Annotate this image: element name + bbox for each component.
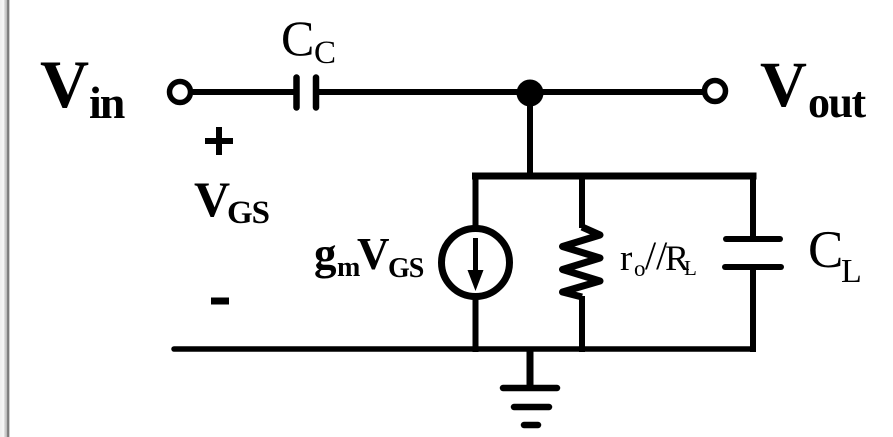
svg-text:C: C (314, 35, 336, 71)
label CL (808, 221, 862, 290)
svg-text:V: V (40, 46, 89, 122)
node Vout label (760, 49, 866, 127)
node junction dot (517, 80, 544, 107)
svg-text:in: in (89, 77, 125, 128)
svg-text:out: out (808, 78, 866, 127)
svg-text:C: C (808, 221, 843, 279)
input terminal (170, 82, 191, 103)
label CC (281, 10, 336, 71)
svg-text:GS: GS (227, 195, 269, 231)
wire input to Cc (193, 89, 294, 95)
wire top bar (472, 173, 757, 180)
capacitor CL (725, 239, 781, 267)
wire bottom rail (174, 346, 753, 352)
wire resistor top lead (579, 173, 585, 228)
node VGS label (194, 171, 269, 231)
svg-text:V: V (760, 49, 807, 121)
svg-text:r: r (620, 238, 632, 279)
svg-text:V: V (194, 171, 230, 227)
capacitor CC (297, 78, 317, 108)
plus sign (205, 127, 233, 155)
wire resistor bottom lead (579, 296, 585, 352)
node Vin label (40, 46, 125, 128)
ground (503, 349, 557, 425)
current source gmVGS (442, 229, 510, 297)
svg-text:L: L (684, 256, 697, 280)
wire Cc to output (318, 89, 703, 95)
wire CL top lead (750, 173, 756, 239)
minus sign (211, 298, 229, 305)
output terminal (705, 81, 726, 102)
svg-text:V: V (357, 229, 390, 279)
scanned page left edge (0, 0, 11, 437)
label gmVGS (314, 229, 424, 284)
wire current source top lead (473, 173, 479, 229)
svg-text:GS: GS (388, 253, 424, 284)
svg-text:L: L (841, 253, 862, 290)
svg-text:g: g (314, 229, 337, 279)
wire CL bottom lead (750, 267, 756, 352)
wire junction stem (527, 93, 533, 179)
wire current source bottom lead (473, 296, 479, 352)
svg-text:C: C (281, 10, 314, 66)
svg-text:o: o (634, 256, 646, 281)
resistor ro//RL (563, 227, 601, 297)
label ro//RL (620, 233, 697, 281)
